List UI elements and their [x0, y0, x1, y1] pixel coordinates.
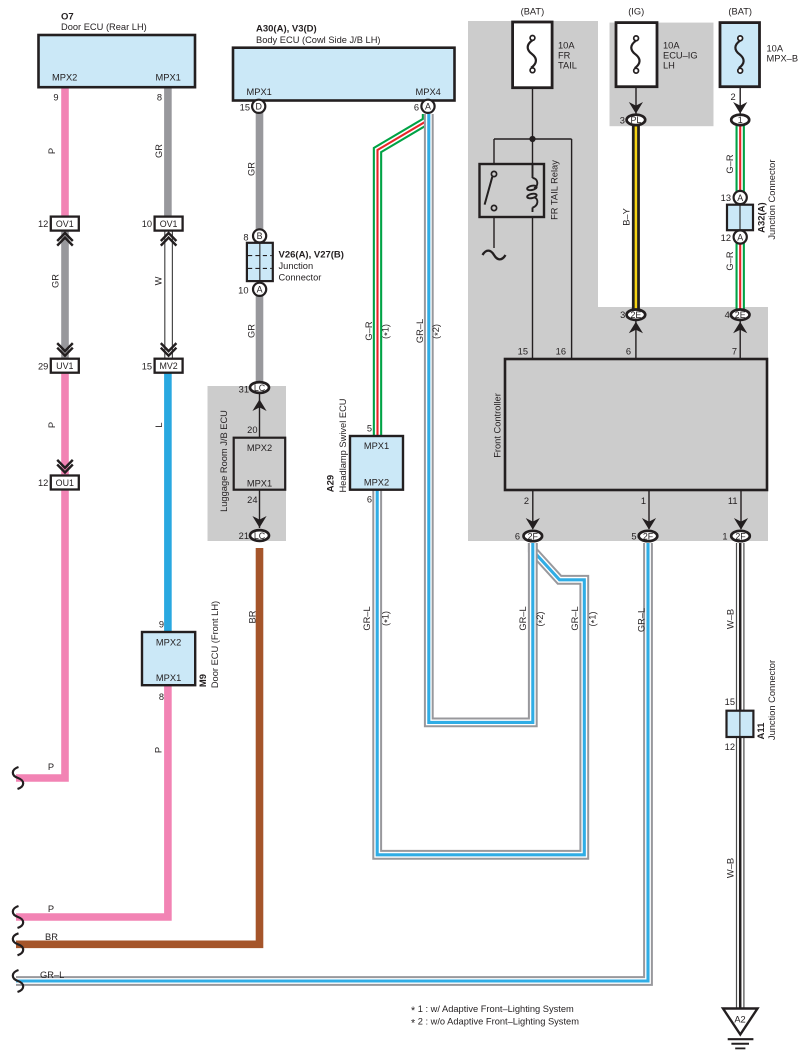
svg-text:MPX2: MPX2 — [156, 637, 181, 647]
svg-text:1: 1 — [722, 532, 727, 542]
svg-text:A: A — [737, 232, 743, 242]
svg-text:Junction: Junction — [279, 261, 314, 271]
svg-text:(BAT): (BAT) — [728, 7, 752, 17]
svg-text:6: 6 — [515, 532, 520, 542]
svg-text:1: 1 — [641, 496, 646, 506]
svg-text:16: 16 — [556, 346, 566, 356]
svg-text:10A: 10A — [558, 41, 575, 51]
svg-text:6: 6 — [367, 495, 372, 505]
svg-text:A: A — [737, 193, 743, 203]
svg-text:7: 7 — [732, 346, 737, 356]
svg-text:OU1: OU1 — [56, 478, 74, 488]
svg-text:10A: 10A — [767, 44, 784, 54]
svg-text:P: P — [48, 762, 54, 772]
svg-text:G–R: G–R — [364, 321, 374, 340]
svg-text:2E: 2E — [630, 310, 641, 320]
svg-text:W: W — [154, 276, 164, 285]
svg-text:MPX1: MPX1 — [364, 441, 389, 451]
svg-text:GR: GR — [154, 144, 164, 158]
svg-text:A: A — [257, 285, 263, 295]
svg-text:3: 3 — [620, 115, 625, 125]
svg-text:MPX–B: MPX–B — [767, 53, 799, 63]
svg-text:A11: A11 — [756, 722, 767, 740]
svg-text:Junction Connector: Junction Connector — [767, 660, 777, 740]
svg-text:P: P — [47, 422, 57, 428]
svg-text:GR–L: GR–L — [637, 608, 647, 632]
svg-text:13: 13 — [721, 193, 731, 203]
svg-text:GR: GR — [51, 274, 61, 288]
svg-text:10: 10 — [238, 285, 248, 295]
svg-text:MPX2: MPX2 — [247, 443, 272, 453]
svg-text:OV1: OV1 — [56, 219, 74, 229]
svg-text:LC: LC — [254, 383, 266, 393]
svg-text:8: 8 — [157, 92, 162, 102]
svg-text:MPX1: MPX1 — [156, 673, 181, 683]
svg-text:A29: A29 — [326, 475, 337, 492]
svg-text:UV1: UV1 — [56, 361, 73, 371]
svg-text:21: 21 — [239, 531, 249, 541]
svg-text:Luggage Room J/B ECU: Luggage Room J/B ECU — [219, 410, 229, 512]
svg-text:LC: LC — [254, 531, 266, 541]
svg-text:3: 3 — [620, 310, 625, 320]
svg-text:12: 12 — [725, 742, 735, 752]
svg-text:2: 2 — [524, 496, 529, 506]
svg-text:GR: GR — [247, 324, 257, 338]
svg-text:P: P — [154, 747, 164, 753]
svg-text:A30(A), V3(D): A30(A), V3(D) — [256, 24, 317, 35]
svg-text:P: P — [48, 904, 54, 914]
svg-text:LH: LH — [663, 60, 675, 70]
svg-text:Door ECU (Rear LH): Door ECU (Rear LH) — [61, 22, 147, 32]
svg-text:Body ECU (Cowl Side J/B LH): Body ECU (Cowl Side J/B LH) — [256, 35, 381, 45]
svg-text:15: 15 — [240, 102, 250, 112]
svg-text:6: 6 — [626, 346, 631, 356]
svg-text:4: 4 — [725, 310, 730, 320]
svg-text:(BAT): (BAT) — [521, 7, 545, 17]
svg-text:W–B: W–B — [726, 609, 736, 629]
svg-text:2: 2 — [731, 92, 736, 102]
svg-text:GR–L: GR–L — [518, 606, 528, 630]
svg-text:L: L — [154, 422, 164, 427]
svg-text:Headlamp Swivel ECU: Headlamp Swivel ECU — [338, 398, 348, 492]
svg-text:31: 31 — [239, 385, 249, 395]
svg-text:V26(A), V27(B): V26(A), V27(B) — [279, 249, 344, 260]
svg-text:GR–L: GR–L — [570, 606, 580, 630]
svg-text:MPX2: MPX2 — [364, 478, 389, 488]
svg-text:GR: GR — [247, 162, 257, 176]
svg-text:10: 10 — [142, 219, 152, 229]
svg-text:12: 12 — [721, 233, 731, 243]
svg-text:29: 29 — [38, 361, 48, 371]
svg-text:12: 12 — [38, 478, 48, 488]
svg-text:GR–L: GR–L — [362, 606, 372, 630]
svg-text:8: 8 — [243, 233, 248, 243]
svg-text:Connector: Connector — [279, 272, 322, 282]
svg-text:10A: 10A — [663, 41, 680, 51]
svg-text:FR: FR — [558, 50, 571, 60]
svg-text:TAIL: TAIL — [558, 60, 577, 70]
svg-text:(IG): (IG) — [628, 7, 644, 17]
svg-text:1: 1 — [738, 115, 743, 125]
svg-text:W–B: W–B — [726, 858, 736, 878]
svg-text:ECU–IG: ECU–IG — [663, 50, 698, 60]
svg-text:Door ECU (Front LH): Door ECU (Front LH) — [210, 601, 220, 688]
svg-text:Junction Connector: Junction Connector — [767, 160, 777, 240]
svg-text:11: 11 — [728, 496, 738, 506]
svg-text:9: 9 — [53, 92, 58, 102]
svg-text:GR–L: GR–L — [40, 970, 64, 980]
svg-text:6: 6 — [414, 102, 419, 112]
svg-text:15: 15 — [518, 346, 528, 356]
svg-text:5: 5 — [631, 532, 636, 542]
svg-text:20: 20 — [247, 425, 257, 435]
svg-text:2F: 2F — [735, 531, 746, 541]
svg-text:MPX1: MPX1 — [247, 87, 272, 97]
svg-text:G–R: G–R — [725, 251, 735, 270]
svg-text:2E: 2E — [735, 310, 746, 320]
svg-text:15: 15 — [725, 697, 735, 707]
svg-text:GR–L: GR–L — [415, 319, 425, 343]
svg-text:FR TAIL Relay: FR TAIL Relay — [550, 160, 560, 220]
svg-text:BR: BR — [45, 932, 58, 942]
svg-text:A2: A2 — [734, 1014, 745, 1024]
svg-text:15: 15 — [142, 361, 152, 371]
svg-text:A32(A): A32(A) — [757, 202, 768, 233]
svg-text:OV1: OV1 — [160, 219, 178, 229]
svg-text:D: D — [255, 102, 261, 112]
svg-text:M9: M9 — [198, 674, 209, 687]
svg-text:12: 12 — [38, 219, 48, 229]
svg-text:2F: 2F — [528, 531, 539, 541]
svg-text:B: B — [257, 231, 263, 241]
svg-text:2F: 2F — [643, 531, 654, 541]
svg-text:24: 24 — [247, 495, 257, 505]
svg-text:MV2: MV2 — [159, 361, 177, 371]
svg-text:Front Controller: Front Controller — [493, 393, 503, 458]
svg-text:BR: BR — [248, 610, 258, 623]
svg-text:PL: PL — [630, 115, 641, 125]
svg-text:G–R: G–R — [725, 154, 735, 173]
svg-text:MPX2: MPX2 — [52, 73, 77, 83]
svg-text:MPX4: MPX4 — [416, 87, 441, 97]
svg-text:9: 9 — [159, 619, 164, 629]
svg-text:8: 8 — [159, 692, 164, 702]
svg-text:A: A — [425, 102, 431, 112]
svg-text:B–Y: B–Y — [622, 208, 632, 226]
svg-text:MPX1: MPX1 — [156, 73, 181, 83]
svg-text:5: 5 — [367, 424, 372, 434]
svg-text:MPX1: MPX1 — [247, 478, 272, 488]
svg-text:P: P — [47, 148, 57, 154]
